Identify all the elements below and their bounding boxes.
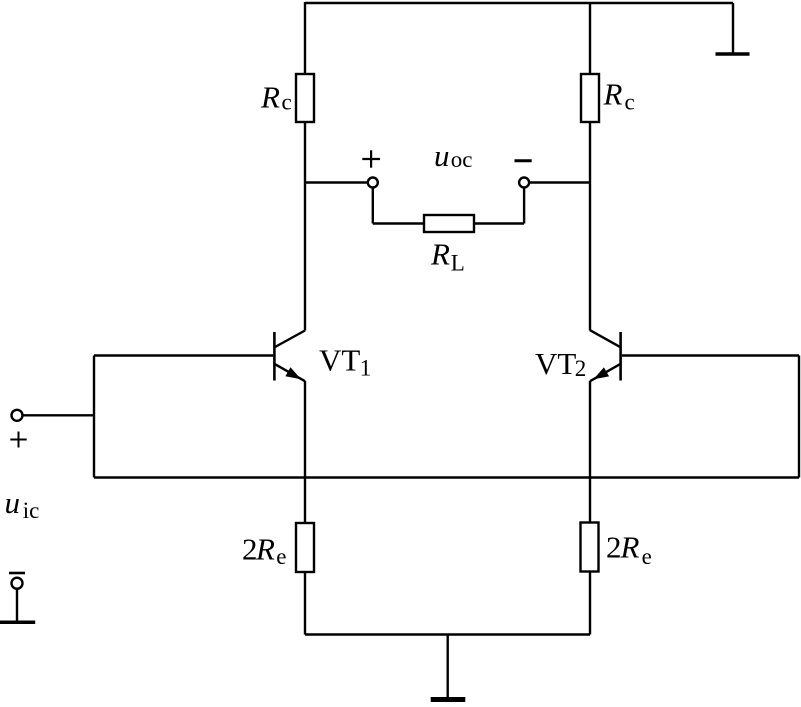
- svg-text:e: e: [642, 544, 652, 569]
- svg-text:u: u: [434, 138, 450, 173]
- svg-text:R: R: [255, 531, 275, 566]
- svg-text:VT: VT: [535, 346, 576, 381]
- svg-text:R: R: [603, 77, 623, 112]
- svg-text:1: 1: [360, 356, 372, 381]
- svg-text:L: L: [451, 251, 465, 276]
- svg-text:c: c: [282, 90, 292, 115]
- svg-text:VT: VT: [319, 342, 360, 377]
- svg-text:e: e: [276, 544, 286, 569]
- svg-text:2: 2: [575, 356, 587, 381]
- svg-text:R: R: [620, 530, 640, 565]
- svg-text:ic: ic: [23, 498, 40, 523]
- svg-text:R: R: [430, 237, 450, 272]
- svg-text:R: R: [260, 80, 280, 115]
- svg-text:u: u: [5, 485, 21, 520]
- svg-text:c: c: [625, 89, 635, 114]
- svg-text:2: 2: [606, 529, 622, 564]
- svg-text:oc: oc: [451, 147, 473, 172]
